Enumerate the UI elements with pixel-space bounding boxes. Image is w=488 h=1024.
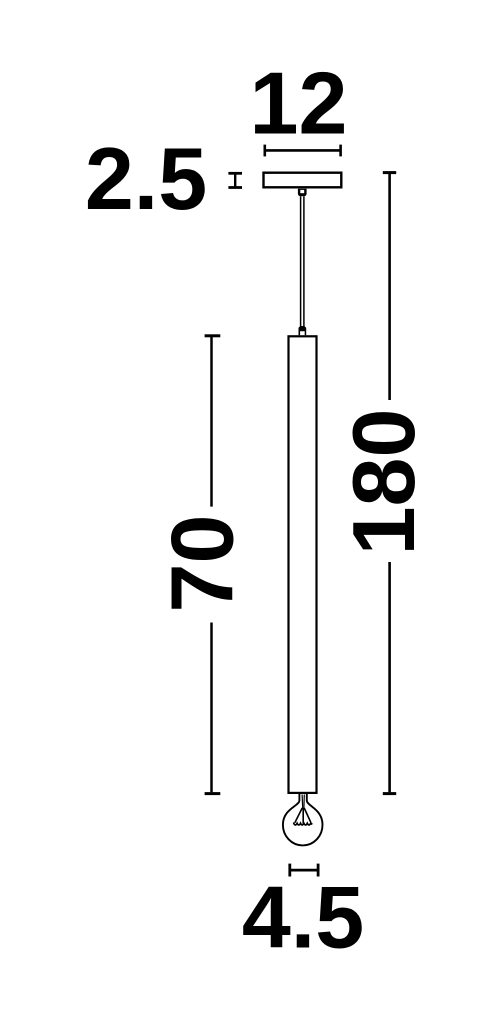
svg-text:4.5: 4.5 (242, 867, 364, 966)
bulb inner stem (295, 795, 311, 824)
dimension line 70 (205, 336, 221, 794)
bulb outline (283, 794, 323, 845)
suspension cable (301, 196, 304, 327)
dimension line 180 (383, 173, 396, 794)
dimension line 12 (265, 145, 341, 157)
svg-text:70: 70 (153, 515, 252, 613)
bulb filament (294, 823, 312, 825)
svg-text:12: 12 (250, 54, 348, 153)
dimension marker 2.5 (228, 173, 242, 187)
tube body (289, 336, 317, 793)
svg-text:180: 180 (334, 409, 433, 556)
cable ferrule at tube top (298, 326, 306, 335)
cord grip nipple (298, 189, 307, 197)
svg-text:2.5: 2.5 (85, 129, 207, 228)
canopy (264, 173, 342, 188)
dimension line 4.5 (290, 864, 318, 877)
